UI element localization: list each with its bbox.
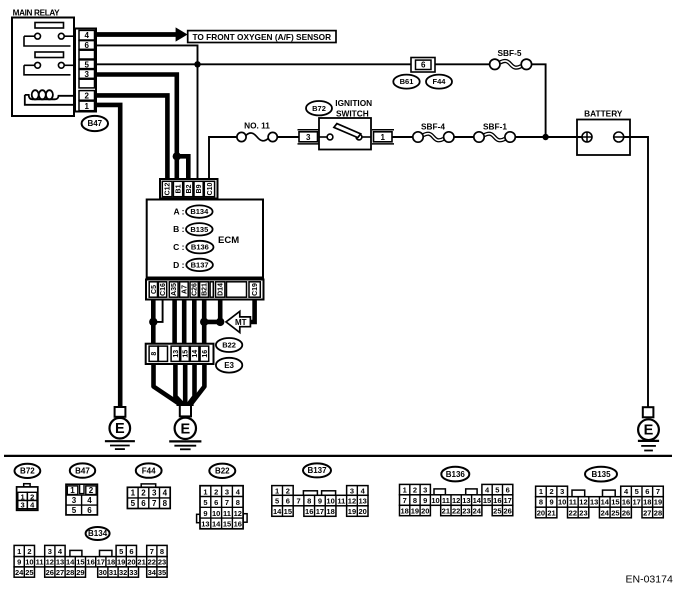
svg-text:6: 6 — [286, 497, 290, 506]
legend connector B136 oval — [441, 467, 469, 482]
svg-text:8: 8 — [151, 352, 158, 356]
ground E center — [169, 405, 201, 449]
svg-text:2: 2 — [27, 547, 31, 556]
svg-text:B :: B : — [173, 224, 185, 234]
svg-text:19: 19 — [117, 558, 125, 567]
ECM pin C19 — [249, 282, 260, 297]
svg-text:NO. 11: NO. 11 — [244, 121, 270, 131]
wire ECM B21 down — [202, 300, 207, 344]
svg-text:12: 12 — [579, 498, 587, 507]
svg-text:B137: B137 — [307, 466, 327, 475]
svg-text:C10: C10 — [207, 182, 214, 195]
B22/E3 pin 15 — [181, 346, 190, 361]
svg-text:13: 13 — [173, 350, 180, 358]
ignition switch pin 3 — [298, 130, 320, 144]
svg-text:27: 27 — [643, 508, 651, 517]
svg-text:6: 6 — [421, 61, 426, 70]
connector B47 pin strip — [75, 29, 96, 112]
svg-text:1: 1 — [70, 486, 75, 495]
legend connector B137 pins — [272, 486, 368, 517]
svg-text:19: 19 — [348, 507, 356, 516]
svg-text:SBF-5: SBF-5 — [498, 48, 522, 58]
svg-text:9: 9 — [203, 509, 207, 518]
svg-text:18: 18 — [643, 498, 651, 507]
svg-text:D :: D : — [173, 260, 185, 270]
svg-text:10: 10 — [212, 509, 220, 518]
wire B21 node to D14 node — [204, 320, 220, 325]
ECM bottom connector strip — [146, 280, 264, 300]
junction node — [194, 61, 200, 67]
svg-text:B61: B61 — [400, 77, 414, 86]
wire pin 13 to ground — [175, 363, 182, 406]
junction node battery — [542, 134, 548, 140]
svg-text:C19: C19 — [252, 283, 259, 296]
svg-text:B134: B134 — [88, 529, 108, 538]
ECM pin B2 — [184, 181, 193, 196]
svg-text:2: 2 — [141, 489, 146, 498]
relay coil — [25, 90, 74, 105]
ECM pin A35 — [169, 282, 178, 297]
svg-text:20: 20 — [537, 508, 545, 517]
svg-text:4: 4 — [84, 31, 89, 40]
wire ECM C26 down — [192, 300, 197, 344]
svg-text:B22: B22 — [222, 341, 236, 350]
svg-text:21: 21 — [137, 558, 145, 567]
svg-text:8: 8 — [307, 497, 311, 506]
svg-text:10: 10 — [558, 498, 566, 507]
B22/E3 pin 8 — [149, 346, 158, 361]
svg-text:13: 13 — [358, 497, 366, 506]
wire pin 16 to ground — [191, 363, 204, 406]
svg-text:3: 3 — [21, 501, 25, 510]
svg-text:32: 32 — [119, 568, 127, 577]
svg-text:13: 13 — [462, 496, 470, 505]
svg-text:11: 11 — [223, 509, 231, 518]
wire ECM A7 down — [182, 300, 187, 344]
ground E left — [105, 407, 135, 449]
svg-text:1: 1 — [380, 133, 385, 142]
B47 pin 6 — [79, 41, 95, 50]
wire B47 pin 4 to oxygen sensor — [96, 32, 176, 37]
B47 pin 1 — [79, 101, 95, 111]
svg-text:13: 13 — [201, 520, 209, 529]
wire ECM C10 up to NO. 11 — [209, 137, 237, 181]
svg-text:11: 11 — [442, 496, 450, 505]
svg-text:SBF-4: SBF-4 — [421, 121, 445, 131]
ECM pin C26 — [190, 282, 198, 297]
ignition switch — [319, 118, 371, 150]
ECM pin B9 — [194, 181, 203, 196]
svg-text:27: 27 — [56, 568, 64, 577]
svg-text:18: 18 — [107, 558, 115, 567]
svg-text:8: 8 — [413, 496, 417, 505]
svg-text:1: 1 — [84, 102, 89, 111]
svg-text:2: 2 — [286, 486, 290, 495]
svg-text:14: 14 — [66, 558, 75, 567]
svg-text:23: 23 — [158, 558, 166, 567]
svg-text:5: 5 — [495, 485, 499, 494]
svg-text:E: E — [115, 421, 125, 437]
ECM top connector strip — [160, 179, 218, 199]
svg-text:6: 6 — [129, 547, 133, 556]
wire pin 1 to SBF-4 — [392, 136, 413, 138]
svg-text:26: 26 — [503, 506, 511, 515]
svg-text:24: 24 — [601, 508, 610, 517]
svg-text:13: 13 — [590, 498, 598, 507]
ECM pin C16 — [158, 282, 166, 297]
svg-text:7: 7 — [225, 498, 229, 507]
B22/E3 pin 14 — [190, 346, 199, 361]
ground E right — [638, 407, 659, 450]
legend connector F44 oval — [136, 463, 162, 477]
svg-text:11: 11 — [337, 497, 345, 506]
svg-text:6: 6 — [84, 41, 89, 50]
svg-text:21: 21 — [547, 508, 555, 517]
svg-text:2: 2 — [413, 485, 417, 494]
connector B61 oval — [393, 75, 419, 89]
svg-text:35: 35 — [158, 568, 166, 577]
connector pin 6 box (B61/F44) — [411, 58, 435, 73]
svg-text:B72: B72 — [20, 467, 35, 476]
junction node C5/C16 — [149, 318, 157, 326]
svg-text:B22: B22 — [215, 467, 230, 476]
svg-text:9: 9 — [549, 498, 553, 507]
legend connector B22 pins — [197, 486, 248, 529]
arrow head — [176, 27, 188, 41]
svg-text:20: 20 — [127, 558, 135, 567]
svg-text:22: 22 — [148, 558, 156, 567]
wire B47 pin 6 to node, down to ECM B9 — [96, 45, 198, 180]
svg-text:16: 16 — [493, 496, 501, 505]
svg-text:9: 9 — [423, 496, 427, 505]
svg-text:1: 1 — [275, 486, 279, 495]
wire B47 pin 2 to ECM C12 — [96, 95, 167, 180]
B22/E3 pin 13 — [171, 346, 180, 361]
connector B22 oval — [216, 338, 242, 352]
svg-text:28: 28 — [66, 568, 74, 577]
svg-text:18: 18 — [400, 506, 408, 515]
svg-text:B72: B72 — [312, 104, 326, 113]
svg-text:3: 3 — [152, 489, 157, 498]
svg-text:E: E — [644, 423, 654, 439]
wire pin 8 to ground — [154, 363, 179, 406]
wire pin 14 to ground — [189, 363, 194, 406]
svg-text:A :: A : — [173, 207, 184, 217]
wire B47 pin 5 — [96, 63, 411, 65]
svg-text:15: 15 — [183, 350, 190, 358]
wire B47 pin 1 to ground — [96, 105, 120, 407]
svg-text:17: 17 — [316, 507, 324, 516]
svg-text:E3: E3 — [224, 361, 234, 370]
svg-text:SBF-1: SBF-1 — [483, 121, 507, 131]
svg-text:16: 16 — [202, 350, 209, 358]
B22/E3 pin 16 — [200, 346, 209, 361]
wire SBF-4 to SBF-1 — [454, 136, 474, 138]
svg-text:2: 2 — [84, 91, 89, 100]
svg-text:7: 7 — [152, 499, 157, 508]
B47 pin 3 — [79, 70, 95, 79]
separator line — [4, 455, 672, 457]
svg-text:6: 6 — [645, 487, 649, 496]
svg-text:15: 15 — [611, 498, 619, 507]
svg-text:22: 22 — [452, 506, 460, 515]
ECM pin A7 — [180, 282, 189, 297]
svg-text:1: 1 — [203, 487, 207, 496]
svg-text:C26: C26 — [192, 283, 199, 296]
svg-text:5: 5 — [635, 487, 639, 496]
ECM pin B21 — [200, 282, 209, 297]
B47 pin 4 — [79, 30, 95, 40]
wire NO.11 to ignition switch pin 3 — [277, 136, 299, 138]
fuse SBF-1 — [474, 121, 516, 142]
fuse SBF-4 — [413, 121, 454, 142]
junction node D14 — [216, 318, 224, 326]
svg-text:34: 34 — [148, 568, 157, 577]
svg-text:9: 9 — [318, 497, 322, 506]
battery — [546, 108, 630, 155]
legend connector B137 oval — [303, 463, 331, 477]
svg-text:18: 18 — [326, 507, 334, 516]
svg-text:3: 3 — [560, 487, 564, 496]
to front oxygen sensor box — [188, 31, 336, 43]
svg-text:3: 3 — [423, 485, 427, 494]
svg-text:10: 10 — [326, 497, 334, 506]
svg-text:3: 3 — [72, 496, 77, 505]
svg-text:ECM: ECM — [218, 235, 239, 246]
svg-text:MT: MT — [235, 318, 247, 327]
ECM pin C5 — [149, 282, 157, 297]
svg-text:5: 5 — [203, 498, 207, 507]
connector strip B22/E3 — [146, 344, 214, 364]
fuse NO. 11 — [237, 121, 277, 142]
svg-text:IGNITION: IGNITION — [335, 98, 372, 108]
svg-text:31: 31 — [109, 568, 117, 577]
wire ECM C5 down — [151, 300, 156, 344]
B47 pin 5 — [79, 60, 95, 69]
svg-text:19: 19 — [654, 498, 662, 507]
svg-text:6: 6 — [506, 485, 510, 494]
legend connector B135 pins — [536, 486, 664, 518]
svg-text:B2: B2 — [186, 184, 193, 193]
svg-text:2: 2 — [89, 486, 94, 495]
legend connector B72 pins — [17, 484, 38, 511]
svg-text:14: 14 — [212, 520, 221, 529]
svg-text:5: 5 — [72, 506, 77, 515]
wire pin 15 to ground — [183, 363, 188, 406]
svg-text:15: 15 — [223, 520, 231, 529]
svg-text:TO FRONT OXYGEN (A/F) SENSOR: TO FRONT OXYGEN (A/F) SENSOR — [192, 32, 331, 42]
svg-text:11: 11 — [569, 498, 577, 507]
junction node B21 — [200, 318, 208, 326]
svg-text:BATTERY: BATTERY — [584, 108, 623, 118]
svg-text:24: 24 — [473, 506, 482, 515]
svg-text:B1: B1 — [176, 184, 183, 193]
svg-text:14: 14 — [192, 350, 199, 358]
wire B47 pin 3 down to ECM B1/B2 — [96, 75, 177, 157]
svg-text:20: 20 — [358, 507, 366, 516]
svg-text:22: 22 — [569, 508, 577, 517]
svg-text:5: 5 — [84, 60, 89, 69]
legend connector B22 oval — [209, 464, 235, 478]
svg-text:B47: B47 — [87, 119, 102, 128]
relay contact 1 — [24, 23, 74, 47]
svg-text:5: 5 — [131, 499, 136, 508]
svg-text:14: 14 — [273, 507, 282, 516]
legend connector F44 pins — [127, 484, 170, 509]
MT tag — [226, 311, 250, 332]
svg-text:F44: F44 — [142, 466, 156, 475]
svg-text:B136: B136 — [191, 243, 209, 252]
legend connector B72 oval — [15, 464, 41, 478]
ECM pin C12 — [162, 181, 172, 196]
svg-text:17: 17 — [97, 558, 105, 567]
connector E3 oval — [216, 358, 242, 373]
svg-text:2: 2 — [549, 487, 553, 496]
legend connector B136 pins — [400, 484, 513, 515]
svg-text:17: 17 — [633, 498, 641, 507]
svg-text:3: 3 — [306, 133, 311, 142]
svg-text:13: 13 — [56, 558, 64, 567]
svg-text:1: 1 — [403, 485, 407, 494]
svg-text:3: 3 — [84, 70, 89, 79]
ignition switch pin 1 — [372, 130, 394, 144]
junction node ECM top — [173, 152, 181, 160]
legend connector B47 pins — [66, 484, 97, 515]
B47 pin 2 — [79, 91, 95, 101]
wire node to B1 — [175, 156, 180, 180]
fuse SBF-5 — [490, 48, 532, 70]
wire node to B2 — [177, 156, 189, 180]
svg-text:12: 12 — [452, 496, 460, 505]
svg-text:10: 10 — [431, 496, 439, 505]
svg-text:B135: B135 — [190, 225, 208, 234]
svg-text:17: 17 — [503, 496, 511, 505]
svg-text:6: 6 — [214, 498, 218, 507]
svg-text:15: 15 — [483, 496, 491, 505]
svg-text:B9: B9 — [196, 184, 203, 193]
connector B72 oval — [306, 101, 332, 115]
svg-text:7: 7 — [656, 487, 660, 496]
svg-text:15: 15 — [76, 558, 84, 567]
svg-text:F44: F44 — [433, 77, 447, 86]
svg-text:12: 12 — [46, 558, 54, 567]
svg-text:3: 3 — [48, 547, 52, 556]
legend connector B134 oval — [86, 527, 110, 540]
relay contact 2 — [24, 52, 74, 75]
ECM box — [147, 200, 263, 278]
svg-text:7: 7 — [403, 496, 407, 505]
svg-text:14: 14 — [601, 498, 610, 507]
svg-text:8: 8 — [539, 498, 543, 507]
svg-text:5: 5 — [119, 547, 123, 556]
svg-text:B137: B137 — [191, 260, 209, 269]
legend connector B134 pins — [14, 545, 167, 577]
svg-text:16: 16 — [305, 507, 313, 516]
svg-text:12: 12 — [348, 497, 356, 506]
svg-text:1: 1 — [539, 487, 543, 496]
wire ECM A35 down — [172, 300, 177, 344]
svg-text:7: 7 — [296, 497, 300, 506]
svg-text:23: 23 — [462, 506, 470, 515]
svg-text:25: 25 — [611, 508, 619, 517]
legend connector B47 oval — [70, 463, 95, 477]
svg-text:16: 16 — [86, 558, 94, 567]
svg-text:25: 25 — [25, 568, 33, 577]
svg-text:8: 8 — [163, 499, 168, 508]
svg-text:2: 2 — [214, 487, 218, 496]
svg-text:6: 6 — [87, 506, 92, 515]
svg-text:8: 8 — [236, 498, 240, 507]
svg-text:C12: C12 — [165, 182, 172, 195]
svg-text:B135: B135 — [591, 470, 611, 479]
svg-text:4: 4 — [163, 489, 168, 498]
svg-text:6: 6 — [141, 499, 146, 508]
svg-text:B134: B134 — [190, 207, 209, 216]
svg-text:23: 23 — [579, 508, 587, 517]
svg-text:SWITCH: SWITCH — [336, 109, 369, 119]
svg-text:7: 7 — [150, 547, 154, 556]
svg-text:C5: C5 — [151, 285, 158, 294]
svg-text:B47: B47 — [75, 466, 90, 475]
svg-text:A35: A35 — [171, 283, 178, 296]
svg-text:9: 9 — [17, 558, 21, 567]
svg-text:B21: B21 — [202, 283, 209, 296]
wire ECM D14 down — [218, 300, 223, 322]
connector F44 oval — [426, 75, 452, 89]
svg-text:1: 1 — [131, 489, 136, 498]
svg-text:28: 28 — [654, 508, 662, 517]
connector B47 oval — [82, 116, 108, 131]
svg-text:B136: B136 — [446, 470, 466, 479]
svg-text:33: 33 — [129, 568, 137, 577]
svg-text:12: 12 — [234, 509, 242, 518]
wire battery negative to ground — [624, 137, 648, 407]
svg-text:29: 29 — [76, 568, 84, 577]
svg-text:C16: C16 — [160, 283, 167, 296]
svg-text:20: 20 — [421, 506, 429, 515]
svg-text:5: 5 — [275, 497, 279, 506]
svg-text:C :: C : — [173, 242, 185, 252]
svg-text:15: 15 — [284, 507, 292, 516]
wire SBF-1 to battery positive — [515, 136, 582, 138]
svg-text:3: 3 — [350, 486, 354, 495]
svg-text:MAIN RELAY: MAIN RELAY — [13, 8, 61, 17]
svg-text:21: 21 — [442, 506, 450, 515]
svg-text:11: 11 — [36, 558, 44, 567]
svg-text:8: 8 — [160, 547, 164, 556]
svg-text:1: 1 — [17, 547, 21, 556]
ECM pin C10 — [204, 181, 214, 196]
svg-text:19: 19 — [411, 506, 419, 515]
ECM pin D14 — [216, 282, 225, 297]
legend connector B135 oval — [585, 467, 617, 482]
svg-text:4: 4 — [87, 496, 92, 505]
svg-text:30: 30 — [99, 568, 107, 577]
wire to SBF-5 — [435, 63, 490, 65]
main relay box — [12, 18, 74, 117]
svg-text:25: 25 — [493, 506, 501, 515]
svg-text:EN-03174: EN-03174 — [626, 574, 673, 586]
wire ECM C19 down to MT — [250, 300, 254, 323]
svg-text:3: 3 — [225, 487, 229, 496]
svg-text:14: 14 — [473, 496, 482, 505]
wire ECM C16 down — [153, 300, 162, 322]
svg-text:E: E — [180, 421, 190, 437]
wire SBF-5 to battery line — [532, 64, 546, 137]
svg-text:26: 26 — [622, 508, 630, 517]
svg-text:26: 26 — [46, 568, 54, 577]
svg-text:16: 16 — [234, 520, 242, 529]
